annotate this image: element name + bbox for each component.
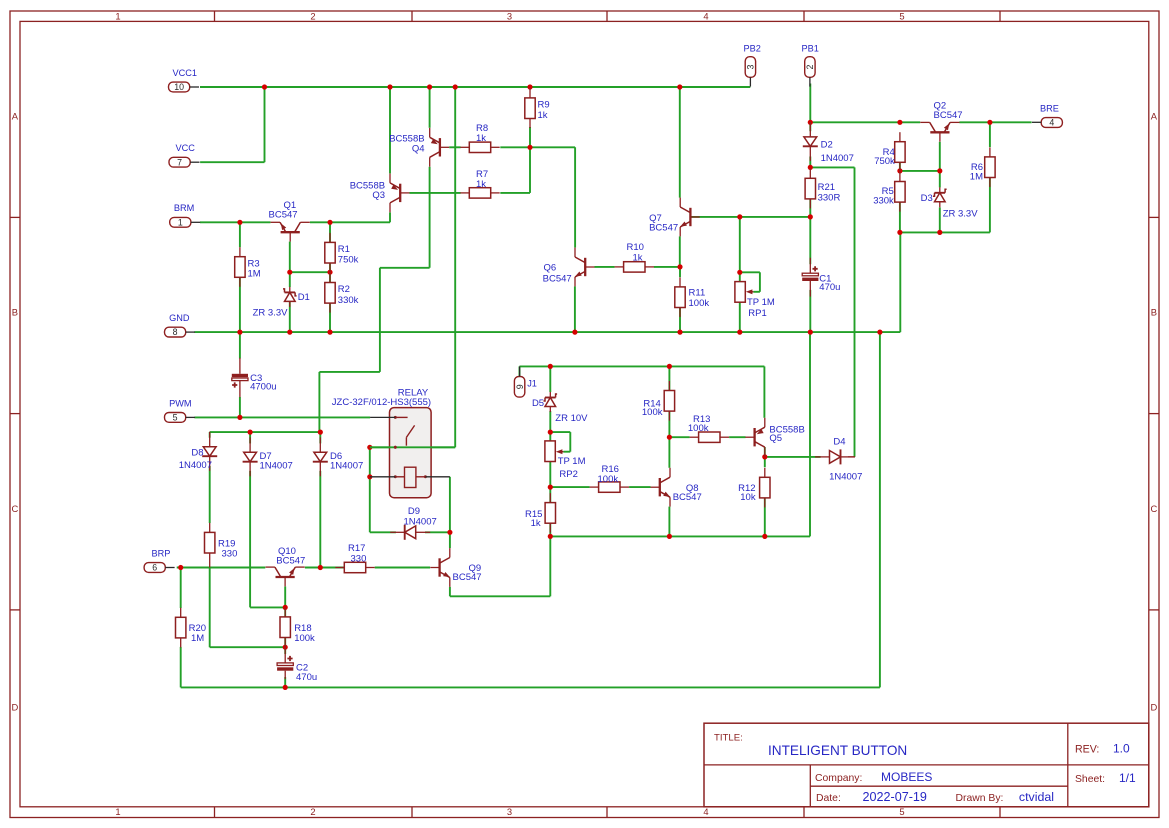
- port BRE pin 4: [1032, 103, 1062, 127]
- resistor R2 330k: [325, 273, 359, 313]
- frame row labels: [12, 111, 1158, 713]
- port BRP pin 6: [144, 548, 175, 572]
- transistor Q6 BC547: [543, 248, 595, 287]
- svg-text:4: 4: [1049, 118, 1054, 128]
- frame column ticks top: [215, 11, 1001, 21]
- resistor R12 10k: [738, 468, 770, 508]
- svg-text:D1: D1: [298, 292, 310, 303]
- svg-text:ZR 10V: ZR 10V: [555, 413, 588, 424]
- wire Q7 emitter x=679.8: [679, 236, 681, 267]
- wire PB1 rail y=122.3: [810, 121, 1031, 123]
- wire D1-R2 link y=272.2: [290, 271, 330, 273]
- svg-text:5: 5: [899, 11, 904, 22]
- svg-text:VCC: VCC: [176, 143, 196, 153]
- wire Q8 emitter x=669.4: [668, 507, 670, 537]
- svg-text:TP 1M: TP 1M: [558, 456, 586, 467]
- wire R4-R5 node y=170.9: [900, 170, 940, 172]
- wire relay coil right drop x=449.9: [449, 477, 451, 533]
- svg-text:7: 7: [177, 157, 182, 167]
- wire relay coil left drop x=369.8: [370, 447, 396, 532]
- svg-text:750k: 750k: [338, 254, 359, 265]
- wire zener bottom rail y=232.4: [900, 231, 990, 233]
- wire GND riser to zener rail x=900.3: [899, 232, 901, 332]
- wire GND rail y=332.1: [194, 331, 900, 333]
- svg-text:2: 2: [805, 64, 815, 69]
- port BRM pin 1: [170, 203, 201, 227]
- svg-text:BRM: BRM: [174, 203, 194, 213]
- svg-text:1N4007: 1N4007: [260, 461, 293, 472]
- title block texts: [714, 732, 1136, 804]
- svg-text:R9: R9: [538, 99, 550, 110]
- svg-text:1M: 1M: [191, 633, 204, 644]
- diode D6 1N4007: [313, 437, 363, 476]
- svg-text:1: 1: [115, 806, 120, 817]
- svg-text:3: 3: [507, 806, 512, 817]
- port PB2 pin 3: [744, 44, 761, 87]
- svg-text:6: 6: [152, 563, 157, 573]
- svg-text:ZR 3.3V: ZR 3.3V: [943, 208, 979, 219]
- svg-text:Q5: Q5: [769, 433, 782, 444]
- svg-text:VCC1: VCC1: [173, 68, 198, 78]
- wire Q10 base x=285.2: [284, 587, 286, 608]
- svg-text:1k: 1k: [538, 110, 548, 121]
- svg-text:330k: 330k: [338, 295, 359, 306]
- transistor Q5 BC558B: [745, 418, 804, 457]
- svg-text:J1: J1: [527, 379, 537, 389]
- svg-text:1k: 1k: [476, 179, 486, 190]
- wire Q8 collector x=669.4: [668, 437, 670, 468]
- svg-text:1: 1: [178, 217, 183, 227]
- wire BRM y=222.3: [200, 212, 390, 222]
- svg-text:470u: 470u: [819, 282, 840, 293]
- svg-text:10k: 10k: [740, 492, 756, 503]
- svg-text:D2: D2: [821, 140, 833, 151]
- svg-text:100k: 100k: [689, 298, 710, 309]
- svg-text:BC547: BC547: [673, 492, 702, 503]
- wire x=455 rail to relay: [454, 87, 456, 447]
- wire C1 column x=810.3: [809, 217, 811, 332]
- svg-text:1N4007: 1N4007: [330, 461, 363, 472]
- diode D9 1N4007: [390, 506, 437, 540]
- svg-text:R1: R1: [338, 244, 350, 255]
- diode D4 1N4007: [815, 437, 862, 483]
- svg-text:D4: D4: [833, 437, 845, 448]
- port VCC1 pin 10: [169, 68, 200, 92]
- svg-text:A: A: [1151, 111, 1158, 122]
- svg-text:Date:: Date:: [816, 793, 841, 804]
- wire RP1 wiper loop: [740, 272, 760, 292]
- resistor R14 100k: [642, 381, 675, 421]
- svg-text:D5: D5: [532, 398, 544, 409]
- resistor R5 330k: [873, 172, 905, 212]
- port PB1 pin 2: [802, 44, 819, 87]
- resistor R20 1M: [176, 608, 207, 648]
- svg-text:100k: 100k: [688, 423, 709, 434]
- wire D6 column x=320.3: [319, 432, 321, 567]
- svg-text:100k: 100k: [598, 474, 619, 485]
- wire RP2 wiper loop: [550, 432, 570, 452]
- svg-text:470u: 470u: [296, 672, 317, 683]
- wire PWM y=417.4: [194, 416, 370, 418]
- transistor Q4 BC558B: [389, 128, 449, 167]
- wire R18 column x=285.2: [284, 607, 286, 647]
- svg-text:BC547: BC547: [276, 555, 305, 566]
- wire Q6 base to R10: [595, 266, 681, 268]
- svg-text:D3: D3: [921, 193, 933, 204]
- svg-text:PB2: PB2: [744, 44, 761, 54]
- wire VCC1 rail y=87: [200, 86, 750, 88]
- svg-text:1N4007: 1N4007: [404, 516, 437, 527]
- wire Q2 base drop x=939.8: [939, 142, 941, 188]
- wire D7 column x=250.1: [250, 432, 285, 607]
- potentiometer RP1 TP 1M: [735, 282, 775, 320]
- diode D7 1N4007: [243, 437, 293, 476]
- resistor R21 330R: [805, 169, 840, 209]
- svg-text:1: 1: [115, 11, 120, 22]
- svg-text:PB1: PB1: [802, 44, 819, 54]
- wire R3 column x=239.9: [239, 222, 241, 332]
- wire R15 column x=550.3: [549, 487, 551, 536]
- capacitor C2 470u: [277, 647, 317, 683]
- frame column labels: [115, 11, 904, 817]
- svg-text:2022-07-19: 2022-07-19: [863, 790, 927, 804]
- svg-text:BC547: BC547: [269, 210, 298, 221]
- svg-text:Company:: Company:: [815, 773, 862, 784]
- wire VCC riser x=264.5: [200, 87, 264, 162]
- svg-text:BC558B: BC558B: [389, 133, 424, 144]
- svg-text:TITLE:: TITLE:: [714, 732, 743, 743]
- svg-text:2: 2: [310, 11, 315, 22]
- svg-text:ctvidal: ctvidal: [1019, 790, 1054, 804]
- svg-text:BC547: BC547: [543, 273, 572, 284]
- title block frame: [704, 723, 1149, 807]
- svg-text:D: D: [12, 702, 19, 713]
- resistor R16 100k: [590, 464, 629, 492]
- transistor Q7 BC547: [649, 198, 700, 237]
- resistor R4 750k: [874, 132, 905, 172]
- svg-text:1N4007: 1N4007: [179, 460, 212, 471]
- wire Q5 emitter x=764.4: [763, 366, 765, 417]
- wire D1 column x=289.8: [289, 242, 291, 333]
- svg-text:4: 4: [703, 11, 708, 22]
- svg-text:1k: 1k: [531, 518, 541, 529]
- svg-text:INTELIGENT BUTTON: INTELIGENT BUTTON: [768, 743, 907, 758]
- transistor Q1 BC547: [269, 200, 310, 241]
- wire D3 bottom x=939.8: [939, 207, 941, 232]
- wire R13 row y=437.2: [669, 436, 745, 438]
- relay JZC-32F/012-HS3(555): [332, 387, 455, 497]
- svg-text:RP2: RP2: [559, 469, 577, 480]
- svg-text:330: 330: [222, 548, 238, 559]
- wire Q4 emitter riser x=429.6: [429, 87, 431, 128]
- frame column ticks bottom: [215, 807, 1001, 818]
- svg-text:C: C: [12, 503, 19, 514]
- resistor R17 330: [335, 543, 374, 573]
- wire Q6 emitter x=574.9: [574, 286, 576, 332]
- resistor R3 1M: [235, 247, 261, 287]
- wire R5 column x=899.9: [899, 202, 901, 233]
- svg-text:R11: R11: [689, 287, 706, 298]
- wire R19 column x=209.7: [210, 466, 286, 647]
- resistor R15 1k: [525, 493, 556, 533]
- svg-text:A: A: [12, 111, 19, 122]
- svg-text:Drawn By:: Drawn By:: [956, 793, 1004, 804]
- wire J1 rail y=366.4: [520, 366, 765, 376]
- svg-text:Q4: Q4: [412, 144, 425, 155]
- wire R1 R2 column x=330: [329, 222, 331, 332]
- wire D2 column x=810.3: [809, 122, 811, 167]
- svg-text:BRP: BRP: [152, 548, 171, 558]
- svg-text:4700u: 4700u: [250, 382, 276, 393]
- resistor R7 1k: [460, 169, 499, 198]
- potentiometer RP2 TP 1M: [545, 441, 586, 480]
- wire D9 to Q9 node: [425, 531, 450, 533]
- wire BRP row y=567.5: [177, 567, 430, 569]
- wire R6 column x=989.9: [989, 122, 991, 232]
- svg-text:ZR 3.3V: ZR 3.3V: [253, 308, 289, 319]
- capacitor C1 470u: [802, 258, 840, 297]
- svg-text:JZC-32F/012-HS3(555): JZC-32F/012-HS3(555): [332, 397, 431, 408]
- resistor R10 1k: [615, 242, 654, 272]
- svg-text:330: 330: [351, 553, 367, 564]
- svg-text:330k: 330k: [873, 196, 894, 207]
- resistor R8 1k: [460, 123, 499, 152]
- svg-text:100k: 100k: [294, 633, 315, 644]
- svg-text:RP1: RP1: [748, 308, 766, 319]
- svg-text:1M: 1M: [248, 269, 261, 280]
- wire R11 column x=680: [679, 267, 681, 332]
- zener diode D1 ZR 3.3V: [253, 287, 310, 319]
- transistor Q2 BC547: [920, 100, 962, 141]
- svg-text:1N4007: 1N4007: [829, 472, 862, 483]
- wire R7 link y=192.9: [410, 192, 531, 194]
- svg-text:1.0: 1.0: [1113, 742, 1130, 756]
- wire Q7 base rail y=216.9: [691, 216, 810, 218]
- wire R14 column x=669.4: [668, 366, 670, 437]
- svg-text:B: B: [12, 307, 18, 318]
- svg-text:D9: D9: [408, 506, 420, 517]
- svg-text:1k: 1k: [476, 133, 486, 144]
- wire R12 column x=764.8: [764, 457, 766, 537]
- wire D2 to x=854.5 drop: [810, 167, 854, 457]
- resistor R9 1k: [525, 88, 550, 128]
- svg-text:MOBEES: MOBEES: [881, 770, 932, 784]
- diode D8 1N4007: [179, 432, 217, 471]
- svg-text:D8: D8: [191, 448, 203, 459]
- resistor R19 330: [205, 523, 238, 568]
- diode D2 1N4007: [803, 122, 854, 164]
- svg-text:5: 5: [173, 413, 178, 423]
- resistor R13 100k: [688, 414, 729, 442]
- svg-text:REV:: REV:: [1075, 744, 1099, 756]
- wire GND drop x=879.9: [879, 332, 881, 687]
- wire Q9 collector x=449.9: [449, 532, 451, 548]
- svg-text:100k: 100k: [642, 407, 663, 418]
- svg-text:B: B: [1151, 307, 1157, 318]
- frame row ticks left: [10, 217, 20, 610]
- wire R4 column x=899.9: [899, 162, 901, 171]
- capacitor C3 4700u: [232, 358, 277, 397]
- wire PB1 drop x=810.3: [809, 84, 811, 123]
- port GND pin 8: [165, 313, 196, 337]
- svg-text:1k: 1k: [633, 252, 643, 263]
- wire Q5 collector node y=456.9: [765, 447, 821, 457]
- transistor Q8 BC547: [651, 468, 702, 507]
- wire D5 column x=550.3: [549, 366, 551, 432]
- svg-text:Q3: Q3: [372, 190, 385, 201]
- zener diode D3 ZR 3.3V: [921, 187, 979, 219]
- svg-text:9: 9: [515, 384, 525, 389]
- wire C2 column x=285.2: [284, 647, 286, 687]
- transistor Q3 BC558B: [350, 174, 410, 213]
- svg-text:1N4007: 1N4007: [821, 153, 854, 164]
- wire diode rail y=432.1: [210, 432, 321, 438]
- wire D4 cathode link: [848, 456, 855, 458]
- svg-text:D: D: [1151, 702, 1158, 713]
- resistor R1 750k: [325, 233, 359, 273]
- wire R20 column x=180.7: [180, 568, 182, 688]
- wire bottom rail y=687.4: [181, 686, 880, 688]
- svg-text:10: 10: [174, 82, 184, 92]
- svg-text:3: 3: [746, 64, 756, 69]
- svg-text:330R: 330R: [818, 192, 841, 203]
- svg-text:1/1: 1/1: [1119, 771, 1136, 785]
- wire RP1 column x=739.8: [739, 217, 741, 332]
- wire R8 node y=147.3: [449, 147, 575, 247]
- svg-text:C: C: [1151, 503, 1158, 514]
- wire RP2 column x=550.3: [549, 432, 551, 487]
- svg-text:BC547: BC547: [934, 110, 963, 121]
- wire Q7 collector x=679.8: [679, 87, 681, 198]
- svg-text:3: 3: [507, 11, 512, 22]
- wire block bottom rail y=536.4: [550, 332, 810, 536]
- svg-text:1M: 1M: [970, 171, 983, 182]
- svg-text:TP 1M: TP 1M: [747, 297, 775, 308]
- svg-text:8: 8: [173, 327, 178, 337]
- wire Q9 emitter return: [450, 536, 550, 596]
- svg-text:GND: GND: [169, 313, 190, 323]
- wire Q3 emitter riser x=390: [389, 87, 391, 173]
- svg-text:BC547: BC547: [453, 572, 482, 583]
- wire R21 column x=810.3: [809, 199, 811, 217]
- svg-text:750k: 750k: [874, 156, 895, 167]
- svg-text:BC547: BC547: [649, 222, 678, 233]
- port J1 pin 9: [514, 366, 537, 397]
- svg-text:Q6: Q6: [544, 263, 557, 274]
- svg-text:2: 2: [310, 806, 315, 817]
- resistor R11 100k: [675, 277, 710, 317]
- zener diode D5 ZR 10V: [532, 392, 588, 424]
- svg-text:R2: R2: [338, 284, 350, 295]
- wire C3 column x=239.9: [239, 332, 241, 417]
- wire Q4 collector path: [319, 167, 429, 432]
- svg-text:Sheet:: Sheet:: [1075, 774, 1105, 785]
- svg-text:PWM: PWM: [169, 398, 191, 408]
- transistor Q10 BC547: [266, 546, 306, 587]
- resistor R6 1M: [970, 147, 995, 187]
- svg-text:BRE: BRE: [1040, 103, 1059, 113]
- wire R9 column x=530: [529, 127, 531, 193]
- wire relay row y=447.3: [370, 446, 455, 448]
- frame row ticks right: [1149, 217, 1159, 610]
- port VCC pin 7: [169, 143, 200, 167]
- transistor Q9 BC547: [430, 548, 481, 587]
- wire R16 row y=487.1: [550, 486, 650, 488]
- port PWM pin 5: [165, 398, 196, 422]
- resistor R18 100k: [280, 607, 315, 647]
